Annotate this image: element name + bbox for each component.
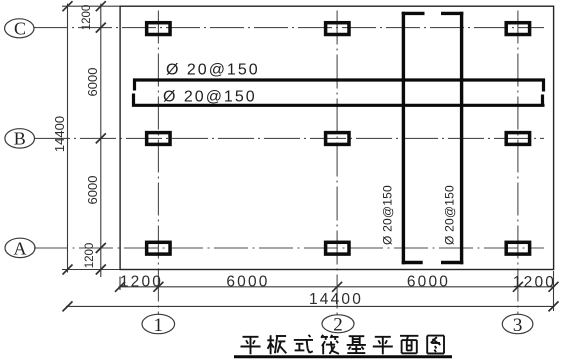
grid centerline C <box>34 27 544 29</box>
title char 式 <box>309 335 311 337</box>
title char 板 <box>270 335 272 354</box>
column B2 <box>326 133 349 145</box>
svg-text:Ø 20@150: Ø 20@150 <box>443 185 457 245</box>
extension line bottom-left <box>62 269 120 271</box>
column C1 <box>147 23 170 35</box>
svg-text:C: C <box>14 19 26 39</box>
dimension ticks <box>63 1 559 311</box>
svg-text:Ø 20@150: Ø 20@150 <box>163 89 257 106</box>
grid centerline 1 <box>157 11 159 315</box>
tick bottom2-right <box>549 301 559 311</box>
tick bottom1-g2 <box>332 282 342 292</box>
tick bottom1-g1 <box>153 282 163 292</box>
extension line top-left <box>62 5 120 7</box>
title underline <box>234 355 452 358</box>
tick inner-top <box>96 1 106 11</box>
grid centerline 3 <box>517 11 519 315</box>
grid centerline A <box>34 247 544 249</box>
rebar strip vertical bottom break <box>402 261 423 264</box>
dimension line bottom second (14400) <box>66 305 555 307</box>
extension line below left edge <box>119 277 121 291</box>
svg-text:1200: 1200 <box>84 243 96 269</box>
tick inner-A <box>96 243 106 253</box>
column A3 <box>506 242 529 254</box>
dimension line bottom first (segments) <box>119 286 555 288</box>
svg-text:6000: 6000 <box>407 274 450 291</box>
rebar strip vertical left bar <box>402 12 405 265</box>
tick bottom1-left <box>115 282 125 292</box>
tick bottom1-right <box>549 282 559 292</box>
column B3 <box>506 133 529 145</box>
title char 平 <box>243 336 259 338</box>
column C2 <box>326 23 349 35</box>
title char 平 <box>375 336 391 338</box>
tick inner-B <box>96 133 106 143</box>
tick outer-bottom <box>63 265 73 275</box>
raft outline <box>120 6 553 269</box>
svg-text:Ø 20@150: Ø 20@150 <box>166 61 260 78</box>
tick outer-top <box>63 1 73 11</box>
svg-text:3: 3 <box>513 315 523 336</box>
grid bubble C <box>5 19 34 38</box>
dimension line left outer (14400) <box>67 4 69 273</box>
svg-text:1200: 1200 <box>81 5 93 31</box>
rebar strip vertical right bar <box>460 12 463 265</box>
column C3 <box>506 23 529 35</box>
rebar strip horizontal bottom bar <box>132 104 545 107</box>
grid bubble 1 <box>142 314 175 333</box>
column A1 <box>147 242 170 254</box>
title char 面 <box>400 335 418 337</box>
svg-text:6000: 6000 <box>85 68 100 97</box>
svg-text:1200: 1200 <box>513 274 556 291</box>
tick bottom1-g3 <box>513 282 523 292</box>
svg-text:14400: 14400 <box>52 116 67 152</box>
column B1 <box>147 133 170 145</box>
svg-text:6000: 6000 <box>85 176 100 205</box>
svg-text:14400: 14400 <box>309 291 363 308</box>
svg-text:1: 1 <box>154 315 164 336</box>
title char 筏 <box>321 335 323 338</box>
grid centerline B <box>34 137 544 139</box>
svg-text:2: 2 <box>333 315 343 336</box>
title 平板式筏基平面图 (drawn strokes) <box>241 335 445 355</box>
tick bottom2-left <box>63 301 73 311</box>
column A2 <box>326 242 349 254</box>
rebar strip horizontal left break <box>133 79 136 91</box>
grid bubble 2 <box>322 315 354 333</box>
rebar strip vertical top break <box>402 12 425 15</box>
dimension line left inner (segments) <box>100 4 102 278</box>
svg-text:6000: 6000 <box>226 274 269 291</box>
grid bubble B <box>5 129 35 148</box>
grid bubble A <box>5 238 35 257</box>
grid centerline 2 <box>336 11 338 315</box>
title char 图 <box>427 335 444 337</box>
rebar strip horizontal right break <box>542 79 545 92</box>
svg-text:Ø 20@150: Ø 20@150 <box>381 185 395 245</box>
svg-text:1200: 1200 <box>120 274 163 291</box>
tick inner-bottom <box>96 265 106 275</box>
grid bubble 3 <box>502 314 533 333</box>
title char 基 <box>349 335 365 337</box>
rebar strip horizontal top bar <box>133 78 545 81</box>
tick inner-C <box>96 23 106 33</box>
svg-text:A: A <box>14 238 27 258</box>
extension line below right edge <box>553 271 555 311</box>
svg-text:B: B <box>14 129 26 149</box>
